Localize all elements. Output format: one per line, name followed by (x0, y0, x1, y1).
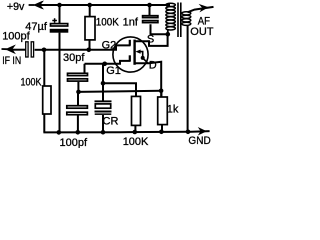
transformer primary winding (166, 3, 175, 30)
crystal CR plates (95, 100, 112, 102)
capacitor 100pf input plates (26, 42, 28, 57)
wire G1 row to R3 (103, 83, 136, 96)
svg-text:100K: 100K (96, 16, 120, 28)
capacitor 47uf bottom plate (filled polarized) (50, 29, 69, 33)
GND rail tail to arrow (188, 130, 210, 133)
primary bottom connector (167, 29, 169, 34)
junction dot rail/secondary (186, 130, 191, 135)
junction dot D node (159, 89, 164, 94)
svg-text:30pf: 30pf (63, 52, 85, 64)
G2 wire (44, 45, 131, 49)
1k bottom lead (161, 125, 163, 132)
R1 top lead (89, 5, 91, 17)
S wire to transformer (135, 34, 168, 46)
+9v rail wire (36, 4, 170, 6)
bottom 100pf bottom lead (77, 116, 79, 133)
junction dot R1/G2 (87, 48, 92, 53)
junction dot rail/47uf (57, 3, 62, 8)
svg-text:100pf: 100pf (2, 31, 30, 43)
resistor R3 100K box (132, 96, 141, 125)
junction dot transformer/1nf/S (166, 32, 171, 37)
crystal CR box (95, 104, 110, 108)
GND arrow (198, 127, 207, 136)
1nf top lead (149, 5, 151, 15)
CR vertical from G1 node (102, 64, 104, 101)
svg-text:S: S (147, 33, 154, 45)
wire cap to node A (35, 49, 44, 51)
svg-text:G1: G1 (106, 65, 121, 77)
MOSFET upper gate bar (G2) (129, 40, 131, 46)
junction dot rail/100pf (76, 130, 81, 135)
junction dot rail/1nf (147, 3, 152, 8)
wire IF IN to cap (10, 49, 25, 51)
svg-text:D: D (149, 60, 157, 72)
junction dot rail/CR (101, 130, 106, 135)
D internal lead and wire down (135, 62, 162, 97)
R3 bottom lead (134, 125, 136, 131)
MOSFET substrate arrow (139, 52, 148, 64)
svg-text:100K: 100K (123, 136, 149, 148)
AF OUT arrow (199, 4, 209, 13)
resistor R4 1k box (158, 97, 168, 125)
30pf bottom lead (77, 82, 79, 92)
capacitor 30pf plates (68, 73, 88, 75)
svg-text:G2: G2 (102, 40, 117, 52)
bottom ground rail (43, 131, 188, 134)
47uf bottom lead / bypass line to ground (59, 33, 61, 132)
47uf top lead (59, 5, 61, 23)
svg-text:100K: 100K (21, 76, 43, 88)
svg-text:CR: CR (103, 116, 119, 128)
resistor R2 100K box (43, 86, 51, 114)
junction dot rail/R3 (133, 130, 138, 135)
svg-text:100pf: 100pf (60, 137, 88, 148)
bottom 100pf top lead (77, 92, 79, 105)
1nf bottom lead (151, 24, 168, 34)
feedback wire (30pf bottom to D node) (79, 91, 162, 92)
transformer core (178, 3, 181, 38)
R2 bottom lead (43, 114, 45, 132)
capacitor 47uf top plate (hollow) (51, 24, 68, 26)
substrate junction dot (141, 56, 145, 60)
junction dot G1/CR/R3 row (101, 81, 106, 86)
junction dot rail/bypass (57, 130, 62, 135)
CR bottom lead (102, 115, 104, 132)
IF IN arrow (2, 45, 16, 55)
MOSFET lower gate bar (G1) (129, 55, 131, 61)
R2 top lead (43, 50, 45, 86)
MOSFET channel bar (133, 40, 135, 65)
transformer secondary winding (182, 12, 191, 26)
R1 bottom lead (89, 40, 91, 50)
junction dot 30pf bottom (76, 90, 81, 95)
G1 wire (85, 61, 131, 64)
svg-text:IF IN: IF IN (2, 55, 21, 67)
svg-text:GND: GND (188, 135, 210, 147)
resistor R1 100K box (85, 17, 95, 40)
MOSFET Q1 circle (113, 37, 148, 72)
secondary bottom lead (187, 25, 189, 132)
30pf top lead (84, 64, 86, 73)
AF OUT lead from secondary top (188, 7, 214, 12)
junction dot rail/R1 (87, 3, 92, 8)
1k top lead (160, 91, 162, 97)
junction dot G1 node (102, 62, 107, 67)
47uf + polarity sign (52, 18, 57, 23)
junction dot rail/1k (159, 130, 164, 135)
svg-text:OUT: OUT (190, 26, 214, 38)
+9v supply arrow (29, 1, 44, 10)
svg-text:1k: 1k (167, 104, 179, 116)
svg-text:1nf: 1nf (123, 16, 139, 28)
svg-text:+9v: +9v (7, 1, 25, 13)
junction dot node A (input) (42, 48, 47, 53)
capacitor bottom 100pf plates (67, 106, 88, 109)
capacitor 1nf plates (143, 16, 158, 18)
